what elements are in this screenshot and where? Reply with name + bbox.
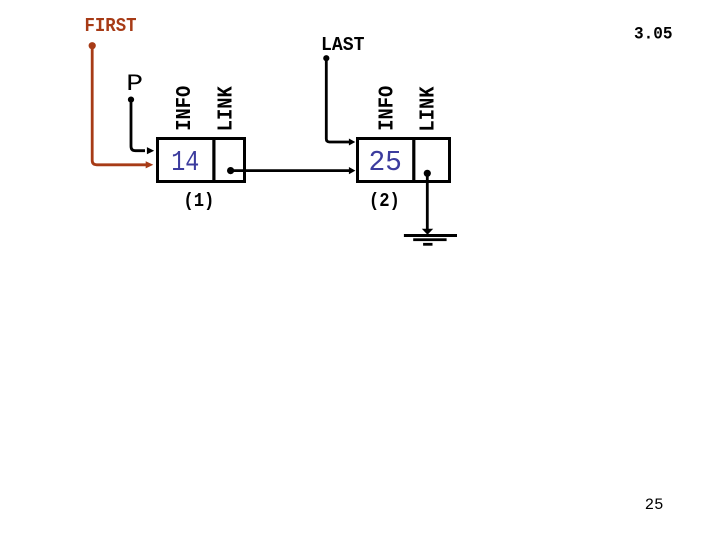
svg-text:FIRST: FIRST [85, 15, 137, 37]
svg-text:14: 14 [171, 146, 199, 179]
wire FIRST to node 1 [92, 46, 153, 169]
wire P to node 1 [131, 100, 154, 155]
svg-text:(2): (2) [369, 190, 400, 212]
ground [404, 234, 457, 246]
svg-text:25: 25 [368, 146, 402, 179]
svg-text:LAST: LAST [321, 34, 365, 56]
svg-text:LINK: LINK [418, 86, 441, 131]
wire LAST to node 2 [326, 58, 355, 145]
junction dot node 2 LINK [424, 170, 431, 177]
junction dot node 1 LINK [227, 167, 234, 174]
svg-text:LINK: LINK [215, 86, 238, 131]
svg-text:3.05: 3.05 [634, 24, 673, 44]
node P pointer dot [128, 97, 134, 103]
node box 2 [358, 137, 450, 182]
svg-text:(1): (1) [183, 190, 214, 212]
svg-text:INFO: INFO [376, 86, 399, 131]
svg-text:25: 25 [645, 496, 664, 514]
svg-text:P: P [126, 71, 143, 97]
node LAST pointer dot [323, 55, 329, 61]
wire node 2 LINK to ground [422, 173, 433, 235]
wire node 1 LINK to node 2 [231, 167, 356, 174]
node FIRST pointer dot [89, 42, 96, 49]
svg-text:INFO: INFO [174, 86, 197, 131]
node box 1 [158, 137, 245, 182]
